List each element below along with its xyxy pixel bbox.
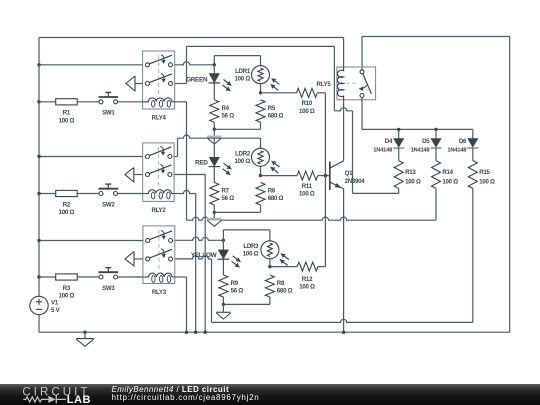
wire YELLOW LED to R9: [222, 260, 224, 275]
label RED net: [195, 160, 208, 167]
wire R13 stub: [398, 188, 400, 193]
label D4: [373, 138, 393, 153]
node D4 tap: [397, 128, 400, 131]
relay RLY4 pilot triangle: [126, 76, 143, 91]
wire GREEN bottom: [214, 122, 260, 129]
LED YELLOW (D3): [218, 250, 241, 267]
svg-text:R2: R2: [63, 201, 71, 208]
wire RED block top rect: [178, 135, 261, 148]
wire RLY5 switch to diode row: [362, 98, 473, 130]
resistor R4: [210, 100, 219, 123]
transistor Q1: [330, 161, 344, 190]
wire GREEN LED to R4: [213, 84, 215, 100]
wire R15 stub: [472, 188, 474, 322]
svg-text:5 V: 5 V: [51, 307, 61, 314]
wire LDR1 to node: [260, 84, 262, 93]
wire RLY5 common to right rail: [362, 37, 510, 70]
svg-text:R3: R3: [63, 285, 71, 292]
switch SW1: [99, 92, 143, 103]
wire RED row2 to ground rail: [174, 175, 205, 333]
wire GREEN-row2 net top run: [187, 46, 335, 110]
label R7: [222, 187, 235, 202]
ground YELLOW block: [216, 304, 230, 319]
svg-text:R13: R13: [405, 169, 416, 176]
svg-text:R15: R15: [479, 169, 490, 176]
LED GREEN (D1): [209, 74, 232, 91]
node LDR3 bottom junction: [268, 265, 271, 268]
label R9: [231, 280, 244, 295]
node GREEN bottom junction: [213, 128, 216, 131]
label R10: [299, 100, 315, 115]
svg-text:Q1: Q1: [345, 170, 353, 177]
svg-text:LAB: LAB: [67, 394, 91, 405]
resistor R9: [219, 275, 228, 297]
label R6: [268, 187, 284, 202]
voltage source V1: [30, 296, 48, 314]
wire R12 to base bus: [318, 176, 326, 267]
node R3 row rail junction: [37, 275, 40, 278]
svg-text:1N4148: 1N4148: [447, 148, 467, 154]
wire R4 to bottom: [213, 122, 215, 129]
svg-text:R4: R4: [222, 105, 230, 112]
node RLY3 coil rail junction: [185, 331, 188, 334]
svg-text:R14: R14: [442, 169, 453, 176]
resistor R1: [39, 99, 99, 105]
relay RLY5: [337, 67, 376, 100]
svg-text:2N3904: 2N3904: [345, 178, 366, 185]
wire D6 to R15: [472, 148, 474, 161]
label RLY4: [152, 115, 167, 122]
svg-text:SW2: SW2: [102, 201, 115, 208]
svg-text:R5: R5: [268, 105, 276, 112]
CircuitLab logo: [0, 384, 110, 405]
svg-text:100 Ω: 100 Ω: [299, 108, 315, 115]
svg-text:1N4148: 1N4148: [373, 148, 393, 154]
node R2 row rail junction: [37, 192, 40, 195]
label RLY3: [152, 289, 167, 296]
node main ground junction: [83, 331, 86, 334]
relay RLY5 coil: [337, 67, 343, 100]
label R1: [59, 110, 75, 125]
wire GREEN row1 to LED block: [175, 62, 215, 65]
label R11: [299, 183, 315, 198]
svg-text:R10: R10: [302, 100, 313, 107]
node YELLOW LED top junction: [222, 239, 225, 242]
resistor R8: [265, 275, 274, 297]
wire YELLOW bottom: [223, 297, 270, 304]
wire RED row1 jog up: [174, 138, 177, 156]
wire Q1 emitter to rail: [343, 189, 345, 333]
svg-text:100 Ω: 100 Ω: [299, 284, 315, 291]
svg-text:LDR1: LDR1: [235, 68, 251, 75]
wire ground bus: [187, 217, 437, 220]
node GREEN LED top junction: [213, 63, 216, 66]
resistor R11: [297, 171, 318, 180]
node D5 tap: [434, 128, 437, 131]
svg-text:680 Ω: 680 Ω: [277, 288, 293, 295]
svg-text:R11: R11: [302, 183, 313, 190]
svg-text:R12: R12: [302, 276, 313, 283]
label LDR3: [243, 243, 259, 258]
wire LDR3 to R12: [270, 266, 297, 268]
wire RLY5 coil to Q1 collector: [343, 100, 345, 161]
resistor R3: [39, 274, 99, 280]
wire GREEN block top rect: [214, 56, 260, 74]
photoresistor LDR1: [252, 66, 280, 91]
ground main: [76, 332, 94, 346]
relay RLY2 pilot triangle: [125, 168, 143, 183]
node RED row1 rail junction: [37, 155, 40, 158]
node base junction: [324, 174, 327, 177]
label R13: [405, 169, 421, 185]
svg-text:D5: D5: [422, 138, 430, 145]
wire RED LED to R7: [213, 167, 215, 182]
wire R7 to bottom: [213, 205, 215, 212]
label RLY2: [151, 207, 166, 214]
relay RLY3 pilot triangle: [125, 252, 143, 267]
svg-text:D6: D6: [459, 138, 467, 145]
label D5: [411, 138, 431, 153]
svg-text:100 Ω: 100 Ω: [59, 117, 75, 124]
svg-text:56 Ω: 56 Ω: [222, 195, 235, 202]
svg-text:RLY2: RLY2: [151, 207, 166, 214]
wire bottom rail: [39, 331, 510, 333]
photoresistor LDR2: [252, 148, 280, 173]
wire GREEN row1 from rail: [39, 64, 143, 66]
svg-text:680 Ω: 680 Ω: [268, 113, 284, 120]
diode D6 1N4148: [467, 129, 478, 148]
wire YELLOW row1 to LED block: [175, 237, 224, 240]
wire YELLOW row1 from rail: [39, 240, 143, 242]
node R1 row rail junction: [37, 100, 40, 103]
node emitter rail junction: [342, 331, 345, 334]
node YELLOW bottom junction: [222, 303, 225, 306]
label RLY5: [316, 81, 331, 88]
resistor R15: [468, 161, 477, 189]
svg-text:680 Ω: 680 Ω: [268, 195, 284, 202]
wire RLY4 coil return: [175, 102, 187, 220]
wire V+ left rail (lower): [38, 315, 40, 332]
svg-text:100 Ω: 100 Ω: [235, 76, 251, 83]
wire R9 to bottom: [222, 297, 224, 304]
wire V+ top rail: [39, 38, 344, 68]
wire LDR3 to node: [269, 259, 271, 267]
resistor R5: [256, 100, 265, 123]
svg-text:100 Ω: 100 Ω: [442, 178, 458, 185]
label V1: [51, 299, 61, 314]
svg-text:SW3: SW3: [102, 285, 115, 292]
wire YELLOW block top rect: [223, 230, 270, 250]
label R15: [479, 169, 495, 185]
label YELLOW net: [191, 252, 218, 259]
wire R13 bottom return: [353, 192, 399, 194]
ground GREEN block: [207, 129, 221, 144]
resistor R2: [39, 190, 99, 196]
wire R14 stub to ground bus: [435, 188, 437, 220]
node YELLOW row1 rail junction: [37, 239, 40, 242]
wire LDR2 to R11: [261, 175, 298, 177]
svg-text:56 Ω: 56 Ω: [231, 288, 244, 295]
svg-text:R6: R6: [268, 187, 276, 194]
diode D5 1N4148: [430, 129, 441, 148]
svg-text:D4: D4: [385, 138, 393, 145]
wire RLY3 coil return: [175, 277, 187, 332]
svg-text:R1: R1: [63, 110, 71, 117]
svg-text:100 Ω: 100 Ω: [479, 178, 495, 185]
svg-text:100 Ω: 100 Ω: [235, 158, 251, 165]
svg-text:100 Ω: 100 Ω: [299, 191, 315, 198]
svg-text:RLY3: RLY3: [152, 289, 167, 296]
svg-text:100 Ω: 100 Ω: [243, 251, 259, 258]
svg-text:RLY4: RLY4: [152, 115, 167, 122]
resistor R13: [394, 161, 403, 189]
relay RLY2: [143, 143, 174, 202]
resistor R7: [210, 182, 219, 205]
relay RLY3: [143, 226, 175, 284]
node RED bottom junction: [213, 211, 216, 214]
wire R10 to base bus: [317, 93, 325, 176]
svg-text:1N4148: 1N4148: [411, 148, 431, 154]
photoresistor LDR3: [261, 241, 289, 266]
wire V+ left rail (upper): [38, 38, 40, 297]
wire LDR1 to R10: [261, 92, 297, 94]
label GREEN net: [186, 76, 208, 83]
ground RED block: [207, 212, 221, 226]
label R2: [59, 201, 75, 216]
wire YELLOW row2 to R15 net: [175, 256, 212, 323]
LED RED (D2): [209, 157, 232, 174]
svg-text:YELLOW: YELLOW: [191, 252, 218, 259]
label R12: [299, 276, 315, 291]
label R5: [268, 105, 284, 120]
resistor R6: [256, 182, 265, 205]
svg-text:LDR2: LDR2: [235, 150, 251, 157]
node RLY2 coil rail junction: [194, 331, 197, 334]
node GREEN row1 rail junction: [37, 63, 40, 66]
resistor R10: [297, 88, 318, 97]
resistor R12: [297, 262, 318, 271]
label R3: [59, 285, 75, 300]
label LDR1: [235, 68, 251, 83]
wire D5 to R14: [435, 148, 437, 161]
wire RLY2 coil return: [174, 190, 196, 332]
switch SW3: [99, 268, 143, 279]
label Q1: [345, 170, 366, 185]
wire D4 to R13: [398, 148, 400, 161]
label R14: [442, 169, 458, 185]
diode D4 1N4148: [393, 129, 404, 148]
svg-text:GREEN: GREEN: [186, 76, 208, 83]
svg-text:100 Ω: 100 Ω: [405, 178, 421, 185]
label R8: [277, 280, 293, 295]
wire GREEN-row2 net jog: [334, 108, 352, 194]
label SW2: [102, 201, 115, 208]
label R4: [222, 105, 235, 120]
svg-text:100 Ω: 100 Ω: [59, 293, 75, 300]
relay RLY5 contacts: [359, 70, 372, 98]
svg-text:V1: V1: [51, 299, 59, 306]
svg-text:56 Ω: 56 Ω: [222, 113, 235, 120]
label SW1: [102, 110, 115, 117]
wire RED row1 from rail: [39, 156, 143, 158]
label SW3: [102, 285, 115, 292]
wire right rail: [509, 37, 511, 333]
wire GREEN row2 to net: [175, 46, 187, 83]
node RED row2 rail junction: [204, 331, 207, 334]
wire RED LED column: [213, 138, 215, 157]
svg-text:RED: RED: [195, 160, 208, 167]
switch SW2: [99, 184, 143, 195]
svg-text:RLY5: RLY5: [316, 81, 331, 88]
svg-text:LDR3: LDR3: [243, 243, 259, 250]
svg-text:R7: R7: [222, 187, 230, 194]
wire R15 return: [212, 319, 473, 322]
node LDR2 bottom junction: [259, 174, 262, 177]
relay RLY4: [143, 51, 175, 109]
wire RED bottom: [214, 205, 260, 212]
svg-text:100 Ω: 100 Ω: [59, 209, 75, 216]
relay RLY5 dashed link: [347, 82, 358, 84]
label D6: [447, 138, 467, 153]
svg-text:R8: R8: [277, 280, 285, 287]
wire R11 to base: [318, 175, 330, 177]
label LDR2: [235, 150, 251, 165]
resistor R14: [432, 161, 441, 189]
wire LDR2 to node: [260, 166, 262, 175]
svg-text:R9: R9: [231, 280, 239, 287]
node LDR1 bottom junction: [259, 91, 262, 94]
svg-text:SW1: SW1: [102, 110, 115, 117]
